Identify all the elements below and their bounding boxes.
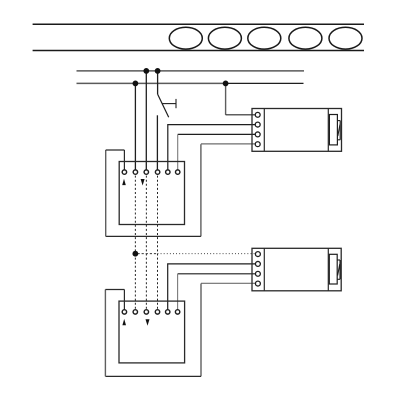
wire relay U2 terminal 3 to box2 terminal 6 horizontal (178, 273, 258, 275)
wire relay U1 terminal 3 to box1 terminal 6 vertical (177, 134, 179, 172)
wire L1 bus (77, 70, 305, 72)
cable cross-section 3 (248, 27, 281, 49)
wire N to relay U1 terminal 1 vertical (225, 83, 227, 114)
pushbutton switch S1 blade (158, 94, 169, 117)
relay U1 terminal 4 (255, 142, 260, 147)
wire N to relay U1 terminal 1 horizontal (226, 114, 258, 116)
relay U1 terminal 3 (255, 132, 260, 137)
relay U1 body (252, 109, 342, 152)
control unit A2 terminal 4 (155, 310, 159, 314)
relay U2 terminal 4 (255, 281, 260, 286)
control unit A1 terminal 6 (176, 170, 180, 174)
control unit A1 terminal 2 (133, 170, 137, 174)
junction on wire N at relay U1 feed (223, 81, 229, 87)
dotted bus line A (134, 176, 136, 310)
dotted branch to relay U2 terminal 1 (158, 253, 256, 255)
wire relay U2 terminal 4 (201, 282, 258, 284)
wire relay U1 terminal 2 to box1 terminal 5 (168, 125, 258, 173)
relay U2 terminal column divider (263, 248, 265, 290)
control unit A2 terminal 6 (175, 310, 179, 314)
wire relay U2 terminal 3 to box2 terminal 6 vertical (177, 274, 179, 312)
relay U2 terminal 2 (255, 261, 260, 266)
control unit A1 terminal 5 (166, 170, 170, 174)
control unit A2 up arrow (122, 319, 126, 325)
control unit A1 terminal 3 (144, 170, 148, 174)
wire loop1 top (106, 149, 125, 151)
relay U1 clip (337, 121, 340, 140)
relay U2 terminal 1 (255, 252, 260, 257)
wire relay U1 terminal 4 (201, 143, 258, 145)
control unit A2 terminal 1 (122, 310, 126, 314)
junction on wire L1 at switch feed (155, 68, 161, 74)
relay U1 inner module (329, 115, 337, 145)
junction on wire L1 at box1 terminal 3 feed (143, 68, 149, 74)
relay U1 terminal column divider (263, 109, 265, 152)
wire relay U1 terminal 3 to box1 terminal 6 horizontal (178, 133, 258, 135)
control unit A1 terminal 1 (122, 170, 126, 174)
cable cross-section 1 (169, 27, 202, 49)
relay U1 right divider (327, 109, 329, 152)
control unit A1 up arrow (122, 179, 126, 185)
dotted bus line C (157, 176, 159, 310)
control unit A2 terminal 2 (133, 310, 137, 314)
cable cross-section 5 (329, 27, 362, 49)
cable cross-section 2 (208, 27, 241, 49)
wire to switch S1 (157, 71, 159, 95)
wire to box1 terminal 2 (134, 83, 136, 172)
wire loop1 drop to box1 terminal 1 (123, 150, 125, 172)
relay U1 terminal 2 (255, 122, 260, 127)
control unit A2 terminal 5 (166, 310, 170, 314)
relay U2 inner module (329, 254, 337, 284)
control unit A1 body (119, 162, 184, 225)
relay U2 body (252, 248, 341, 290)
wire N bus right segment (226, 82, 304, 84)
wire relay U2 terminal 2 to box2 terminal 5 (168, 264, 258, 312)
wire loop1 right vertical (200, 144, 202, 236)
relay U1 terminal 1 (255, 112, 260, 117)
pushbutton switch S1 actuator (162, 99, 176, 108)
cable trunking bottom edge (33, 50, 364, 52)
wire loop2 right vertical (200, 284, 202, 377)
wire switch to box1 terminal 4 (156, 115, 158, 172)
wire loop2 bottom (105, 375, 201, 377)
junction on wire N at box1 terminal 2 feed (133, 81, 139, 87)
cable cross-section 4 (289, 27, 322, 49)
wire to box1 terminal 3 (145, 71, 147, 172)
wire N bus left segment (77, 82, 226, 84)
control unit A2 terminal 3 (144, 310, 148, 314)
control unit A1 terminal 4 (155, 170, 159, 174)
junction on dotted bus (132, 251, 138, 257)
control unit A2 body (119, 301, 185, 363)
control unit A1 down arrow (141, 179, 145, 186)
wire loop1 bottom (106, 235, 201, 237)
relay U2 right divider (327, 248, 329, 290)
dotted bus line B (145, 176, 147, 310)
cable trunking top edge (33, 23, 364, 25)
wire loop2 drop to box2 terminal 1 (123, 290, 125, 312)
wire loop1 left vertical (105, 150, 107, 236)
wire loop2 top (105, 289, 124, 291)
dashed branch to relay U2 (138, 253, 158, 255)
relay U2 clip (337, 260, 340, 279)
relay U2 terminal 3 (255, 271, 260, 276)
wire loop2 left vertical (104, 290, 106, 377)
control unit A2 down arrow (146, 319, 150, 326)
